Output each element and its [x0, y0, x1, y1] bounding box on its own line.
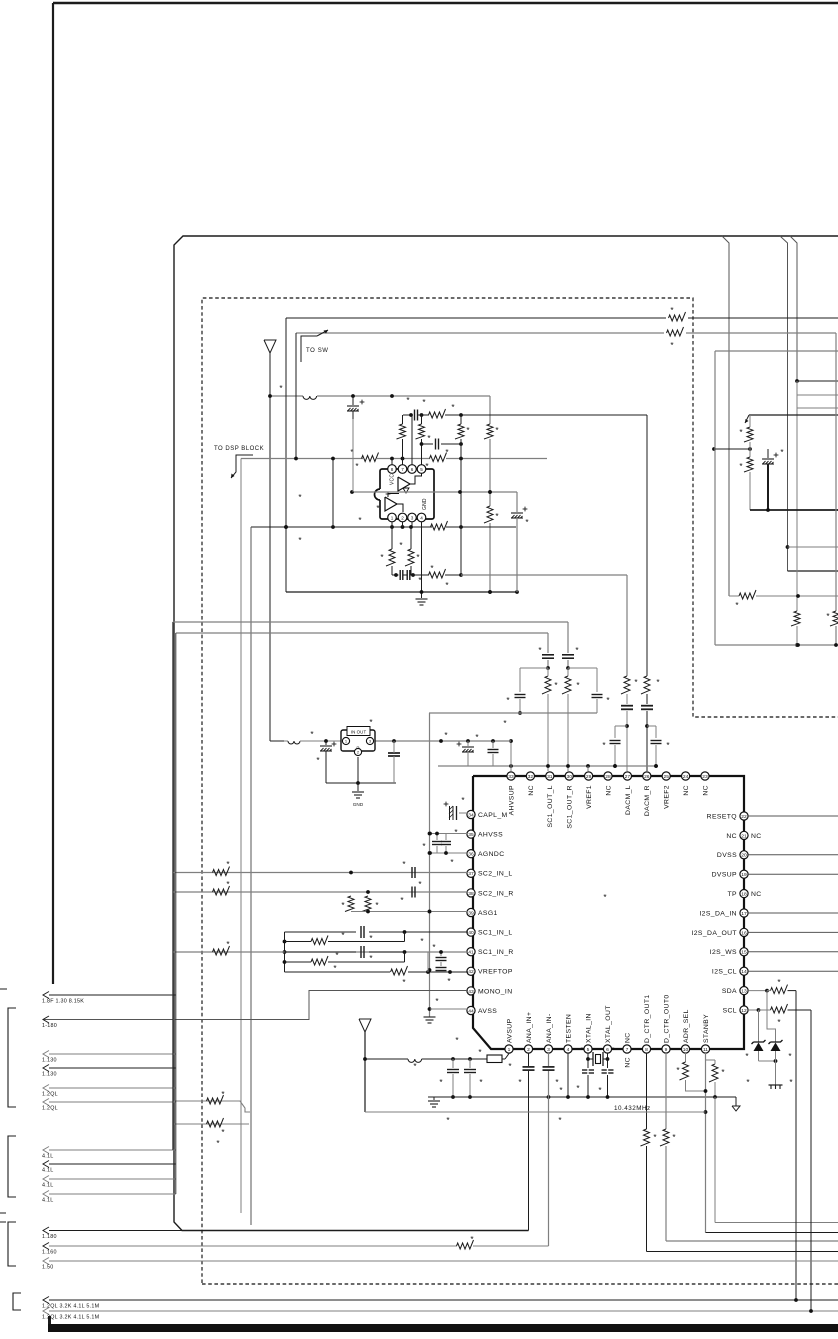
svg-text:1.130: 1.130 — [42, 1058, 57, 1064]
svg-text:13: 13 — [741, 989, 747, 995]
svg-text:D_CTR_OUT1: D_CTR_OUT1 — [644, 994, 651, 1043]
svg-text:23: 23 — [702, 774, 708, 780]
svg-text:NC: NC — [751, 891, 762, 898]
svg-text:AHVSS: AHVSS — [478, 832, 503, 839]
svg-text:41: 41 — [468, 950, 474, 956]
svg-text:GND: GND — [353, 802, 364, 807]
svg-text:SDA: SDA — [722, 988, 737, 995]
svg-text:17: 17 — [741, 911, 747, 917]
svg-text:VCC: VCC — [390, 474, 396, 485]
svg-text:1.2QL 3.2K 4.1L 5.1M: 1.2QL 3.2K 4.1L 5.1M — [42, 1315, 100, 1321]
svg-text:7: 7 — [626, 1047, 629, 1053]
svg-text:5: 5 — [587, 1047, 590, 1053]
svg-text:24: 24 — [683, 774, 689, 780]
svg-text:10: 10 — [683, 1047, 689, 1053]
svg-text:1.8F 1.30 8.15K: 1.8F 1.30 8.15K — [42, 999, 84, 1005]
svg-text:1.50: 1.50 — [42, 1265, 54, 1271]
svg-text:D_CTR_OUT0: D_CTR_OUT0 — [663, 994, 670, 1043]
svg-text:6: 6 — [411, 467, 414, 472]
svg-text:1.2QL: 1.2QL — [42, 1092, 58, 1098]
svg-text:9: 9 — [665, 1047, 668, 1053]
svg-text:29: 29 — [586, 774, 592, 780]
svg-text:AGNDC: AGNDC — [478, 851, 505, 858]
svg-text:6: 6 — [606, 1047, 609, 1053]
svg-text:7: 7 — [401, 467, 404, 472]
svg-text:21: 21 — [741, 833, 747, 839]
svg-text:DVSS: DVSS — [717, 852, 737, 859]
svg-text:2: 2 — [401, 515, 404, 520]
svg-text:26: 26 — [644, 774, 650, 780]
svg-text:1: 1 — [508, 1047, 511, 1053]
svg-text:VREF2: VREF2 — [664, 785, 671, 809]
svg-text:SC2_IN_R: SC2_IN_R — [478, 890, 514, 897]
svg-text:44: 44 — [468, 1008, 474, 1014]
svg-text:4.1L: 4.1L — [42, 1183, 54, 1189]
svg-text:1: 1 — [391, 515, 394, 520]
svg-text:18: 18 — [741, 892, 747, 898]
svg-text:35: 35 — [468, 832, 474, 838]
svg-text:27: 27 — [625, 774, 631, 780]
svg-text:AVSUP: AVSUP — [506, 1018, 513, 1043]
svg-text:TP: TP — [728, 891, 738, 898]
svg-text:34: 34 — [468, 812, 474, 818]
svg-text:4.1L: 4.1L — [42, 1198, 54, 1204]
svg-text:32: 32 — [528, 774, 534, 780]
svg-text:20: 20 — [741, 853, 747, 859]
svg-text:I2S_DA_OUT: I2S_DA_OUT — [691, 930, 737, 937]
svg-text:43: 43 — [468, 989, 474, 995]
svg-text:VREF1: VREF1 — [586, 785, 593, 809]
svg-text:SC1_OUT_L: SC1_OUT_L — [547, 785, 554, 828]
svg-text:SCL: SCL — [723, 1007, 737, 1014]
svg-text:8: 8 — [645, 1047, 648, 1053]
svg-text:40: 40 — [468, 930, 474, 936]
svg-text:VREFTOP: VREFTOP — [478, 969, 513, 976]
svg-text:NC: NC — [528, 785, 535, 796]
svg-text:5: 5 — [420, 467, 423, 472]
svg-text:NC: NC — [624, 1032, 631, 1043]
svg-text:SC1_OUT_R: SC1_OUT_R — [567, 785, 574, 829]
svg-text:31: 31 — [547, 774, 553, 780]
svg-text:14: 14 — [741, 969, 747, 975]
svg-text:DACM_R: DACM_R — [644, 785, 651, 816]
svg-text:I2S_WS: I2S_WS — [710, 949, 737, 956]
svg-text:I2S_CL: I2S_CL — [712, 969, 737, 976]
svg-text:IN OUT: IN OUT — [351, 730, 367, 735]
svg-text:15: 15 — [741, 950, 747, 956]
svg-text:SC1_IN_L: SC1_IN_L — [478, 930, 513, 937]
svg-text:38: 38 — [468, 891, 474, 897]
svg-text:3: 3 — [547, 1047, 550, 1053]
svg-text:4.1L: 4.1L — [42, 1154, 54, 1160]
svg-text:33: 33 — [508, 774, 514, 780]
svg-text:30: 30 — [566, 774, 572, 780]
svg-text:37: 37 — [468, 871, 474, 877]
svg-text:3: 3 — [411, 515, 414, 520]
svg-text:G: G — [357, 746, 360, 750]
svg-text:NC: NC — [683, 785, 690, 796]
svg-text:SC1_IN_R: SC1_IN_R — [478, 949, 514, 956]
svg-text:NC: NC — [605, 785, 612, 796]
svg-text:RESETQ: RESETQ — [707, 813, 737, 820]
svg-text:39: 39 — [468, 910, 474, 916]
svg-text:25: 25 — [663, 774, 669, 780]
svg-text:4: 4 — [567, 1047, 570, 1053]
svg-text:4.1L: 4.1L — [42, 1168, 54, 1174]
svg-text:4: 4 — [420, 515, 423, 520]
svg-text:XTAL_OUT: XTAL_OUT — [605, 1005, 612, 1043]
svg-text:STANBY: STANBY — [703, 1014, 710, 1043]
svg-text:2: 2 — [527, 1047, 530, 1053]
svg-text:NC: NC — [726, 833, 737, 840]
svg-text:ANA_IN+: ANA_IN+ — [526, 1012, 533, 1043]
svg-text:22: 22 — [741, 814, 747, 820]
svg-text:TO SW: TO SW — [306, 348, 329, 354]
svg-text:NC: NC — [702, 785, 709, 796]
svg-text:GND: GND — [422, 498, 428, 510]
svg-text:DACM_L: DACM_L — [625, 785, 632, 815]
svg-text:1-180: 1-180 — [42, 1023, 57, 1029]
svg-text:1.130: 1.130 — [42, 1072, 57, 1078]
svg-text:DVSUP: DVSUP — [712, 872, 737, 879]
svg-text:XTAL_IN: XTAL_IN — [585, 1013, 592, 1043]
svg-text:AHVSUP: AHVSUP — [508, 785, 515, 815]
svg-text:19: 19 — [741, 872, 747, 878]
svg-text:42: 42 — [468, 969, 474, 975]
svg-text:NC: NC — [624, 1057, 631, 1068]
svg-text:1.180: 1.180 — [42, 1234, 57, 1240]
svg-text:11: 11 — [703, 1047, 708, 1053]
svg-text:1.2QL 3.2K 4.1L 5.1M: 1.2QL 3.2K 4.1L 5.1M — [42, 1304, 100, 1310]
svg-text:1.160: 1.160 — [42, 1250, 57, 1256]
svg-text:16: 16 — [741, 930, 747, 936]
svg-text:ANA_IN-: ANA_IN- — [546, 1013, 553, 1043]
svg-text:10.432MHz: 10.432MHz — [614, 1105, 651, 1112]
svg-text:TO DSP BLOCK: TO DSP BLOCK — [214, 446, 264, 452]
svg-text:SC2_IN_L: SC2_IN_L — [478, 871, 513, 878]
svg-text:AVSS: AVSS — [478, 1008, 497, 1015]
svg-text:ASG1: ASG1 — [478, 910, 498, 917]
svg-text:12: 12 — [741, 1008, 747, 1014]
svg-text:MONO_IN: MONO_IN — [478, 988, 513, 995]
svg-text:NC: NC — [751, 833, 762, 840]
svg-text:CAPL_M: CAPL_M — [478, 812, 508, 819]
svg-text:28: 28 — [605, 774, 611, 780]
svg-text:36: 36 — [468, 852, 474, 858]
svg-text:8: 8 — [391, 467, 394, 472]
svg-text:TESTEN: TESTEN — [565, 1014, 572, 1043]
svg-text:ADR_SEL: ADR_SEL — [683, 1009, 690, 1043]
svg-text:1.2QL: 1.2QL — [42, 1106, 58, 1112]
svg-text:I2S_DA_IN: I2S_DA_IN — [699, 910, 737, 917]
